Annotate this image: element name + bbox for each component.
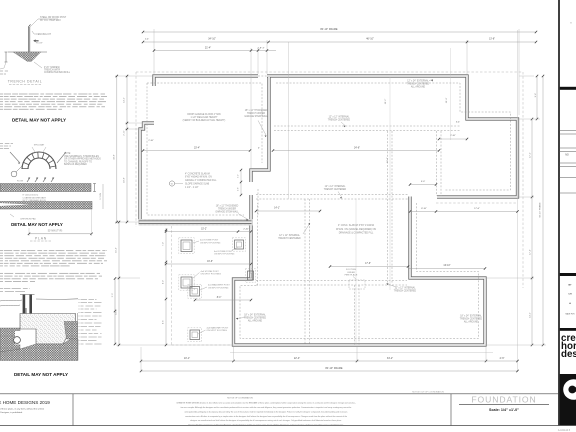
svg-text:W.W.M. ON (GRAVEL REQUIRED) O: W.W.M. ON (GRAVEL REQUIRED) ON [336,228,376,231]
porch dashed edge (right porch) [436,202,518,204]
porch dim 8-4 [195,299,251,301]
check dam: flow arrows under arch [27,178,30,183]
svg-text:NOTICE OUT OF COORDINATION: NOTICE OUT OF COORDINATION [412,390,444,393]
svg-text:ALL AROUND: ALL AROUND [411,86,426,89]
svg-text:FIRE PLACE: FIRE PLACE [345,274,358,277]
svg-text:18" x 12" THICKENED: 18" x 12" THICKENED [245,110,268,112]
dim 8-10 upper [410,184,436,186]
trench dashed inside garage [147,83,262,215]
wall: garage stem bottom (thickened) [139,219,253,226]
strip right rotated dim [102,184,104,209]
svg-text:15'-2": 15'-2" [201,228,207,230]
strip1 right dim [94,184,96,192]
svg-text:16'-2": 16'-2" [385,98,387,104]
dim 17-6 mid [330,266,408,268]
svg-text:46'-10": 46'-10" [366,38,374,41]
svg-text:18" x 12" THICKENED: 18" x 12" THICKENED [216,205,239,207]
trench detail: left depth dim [5,52,7,62]
grid line x450 [450,48,452,140]
porch dim 16-6 [166,263,251,265]
fireplace footing dashed rect [349,280,365,289]
internal trench dashed pair x357 [354,285,356,345]
grid line x288 [288,42,290,199]
logo disc [563,379,576,400]
interior dim 23-4 [143,150,250,152]
svg-text:2'-8" 4": 2'-8" 4" [258,48,265,50]
svg-text:1 1/2" REGULAR HEIGHT: 1 1/2" REGULAR HEIGHT [191,116,219,119]
wall: bottom-right section [234,195,486,345]
left dim line (garage inner) [126,76,128,222]
section: right soil wedge [64,322,78,340]
right strip: thick bar 3 [560,328,576,331]
internal trench dashed pair x439 [436,131,438,196]
svg-text:CH: CH [568,294,572,296]
svg-text:7'-0": 7'-0" [163,242,165,246]
svg-text:GARAGE STEM WALL: GARAGE STEM WALL [244,115,268,118]
svg-text:17'-4": 17'-4" [530,249,532,255]
svg-text:TRENCH CENTERED: TRENCH CENTERED [324,189,347,191]
svg-text:2'-10": 2'-10" [148,140,154,142]
svg-text:TRENCH CENTERED: TRENCH CENTERED [278,238,301,240]
left dim line (porch/lower) [118,222,120,345]
svg-text:80'-10" FRAME: 80'-10" FRAME [325,367,343,370]
svg-text:TO CHANNEL RUNOFF TO: TO CHANNEL RUNOFF TO [64,160,92,163]
svg-text:GRAVEL 4" COMPACTED FILL: GRAVEL 4" COMPACTED FILL [185,179,217,182]
svg-text:3'-0": 3'-0" [238,174,240,178]
svg-text:DRAINAGE & COMPACTED FILL: DRAINAGE & COMPACTED FILL [339,231,374,234]
svg-text:4x4 STONE POST: 4x4 STONE POST [201,271,220,273]
trench detail: left cut label [0,70,3,72]
svg-text:4x4 MASONRY POST: 4x4 MASONRY POST [208,284,230,287]
svg-text:des: des [561,349,576,360]
section: bottom soil band [0,339,78,361]
section: grade labels [0,288,3,290]
svg-text:17'-6": 17'-6" [365,263,371,265]
svg-text:16'-6": 16'-6" [207,261,213,263]
svg-text:4x4 STONE POST: 4x4 STONE POST [200,240,219,242]
post footing P4 [190,287,200,297]
svg-text:6"X6" #10/#10 W.W.M. ON: 6"X6" #10/#10 W.W.M. ON [185,177,212,179]
svg-text:NOTE:: NOTE: [64,153,71,155]
svg-text:DROP GARAGE FLOOR 4" MIN: DROP GARAGE FLOOR 4" MIN [187,113,221,116]
svg-text:18" x 24" EXTERNAL: 18" x 24" EXTERNAL [460,315,482,318]
right strip: thick bar 1 [560,87,576,90]
svg-text:MADE FOR: MADE FOR [566,313,576,316]
svg-text:ALL AROUND: ALL AROUND [464,321,479,324]
right title strip: vertical black edge [558,0,560,426]
porch dashed edges (left porch) [171,226,173,345]
svg-text:CREATIVE HOME DESIGN devotes: CREATIVE HOME DESIGN devotes its best ef… [176,401,356,404]
svg-text:24'-6": 24'-6" [354,147,360,150]
section: concrete stem+footing [20,314,76,345]
check dam: stone arch [22,152,56,169]
svg-text:16'-1": 16'-1" [387,157,389,163]
right strip: revision table rows [560,130,576,132]
svg-text:COMPACTED BACKFILL: COMPACTED BACKFILL [44,71,71,74]
title bar: divider 2 [450,394,452,426]
svg-text:© CREATIVE HOME DESIGNS 2019: © CREATIVE HOME DESIGNS 2019 [0,399,50,405]
check dam: left cut-off labels [0,143,3,145]
svg-text:TRENCH CENTERED: TRENCH CENTERED [244,317,267,319]
svg-text:12" x 24" EXTERNAL: 12" x 24" EXTERNAL [407,80,429,83]
post footing P2 [235,240,244,249]
svg-text:SLOPE GARAGE SLAB: SLOPE GARAGE SLAB [185,183,210,186]
section: right label stack [81,299,88,301]
svg-text:4" CONC. SLAB W/ 6"X6" # 10/#: 4" CONC. SLAB W/ 6"X6" # 10/#10 [338,224,375,227]
svg-text:14'-2": 14'-2" [124,97,126,103]
top dim line 3 [154,50,276,52]
svg-text:4"x6" (VARIES): 4"x6" (VARIES) [44,66,60,69]
svg-text:FOOTING: FOOTING [346,269,356,271]
svg-text:DETAIL MAY NOT APPLY: DETAIL MAY NOT APPLY [12,117,66,122]
porch dims 15-2 / 2-10 [166,231,251,233]
svg-text:12" x 12" INTERNAL: 12" x 12" INTERNAL [395,287,416,290]
svg-text:FENCING KIT: FENCING KIT [37,34,52,36]
svg-text:PLAN: PLAN [35,236,47,240]
svg-text:BY: BY [568,285,572,287]
bottom dim line 2 [141,370,518,372]
svg-text:58'-10" FRAME: 58'-10" FRAME [539,202,542,218]
svg-text:3'-0": 3'-0" [112,293,114,298]
svg-text:8'-10": 8'-10" [421,208,427,210]
svg-text:2'-4": 2'-4" [145,39,149,41]
svg-text:FOUNDATION: FOUNDATION [471,394,536,404]
riprap strip 1 [0,184,91,192]
internal trench dashed pair y127 [274,125,460,127]
grid line x517.5 [517,30,519,372]
svg-text:16'-4": 16'-4" [116,247,118,253]
title bar: top border [0,393,558,395]
trench dashed bottom-right room [240,203,479,339]
svg-text:TRENCH CENTERED: TRENCH CENTERED [460,319,483,321]
svg-text:80'-10" FRAME: 80'-10" FRAME [320,28,338,31]
svg-text:construction costs. A fail: construction costs. A failure to coopera… [185,415,347,418]
riprap strip 2 [0,202,92,210]
section: right edge line [77,313,79,361]
svg-text:5'-0": 5'-0" [421,181,426,183]
svg-text:Reproduction of these plans, i: Reproduction of these plans, in any form… [0,407,45,410]
svg-text:8'-0": 8'-0" [163,280,165,284]
svg-text:18" x 24" EXTERNAL: 18" x 24" EXTERNAL [244,313,266,316]
trench detail: leader to post label [30,19,58,27]
svg-text:14'-2": 14'-2" [530,312,532,318]
svg-text:ON SPOT FOOTING: ON SPOT FOOTING [200,242,221,244]
check dam: stone callout circle [11,171,17,177]
post footing P1 [181,240,192,252]
section: left gravel + drain [0,328,20,352]
wall: top + top-right steps [154,76,258,86]
right strip: thick bar 2 [560,273,576,276]
section: grade line right [36,298,78,301]
svg-text:23'-4": 23'-4" [194,147,200,150]
grid line x390 [389,77,391,290]
svg-text:9'-4": 9'-4" [535,93,537,98]
porch inner dim [165,228,167,345]
svg-text:12" x 12" INTERNAL: 12" x 12" INTERNAL [325,185,346,188]
svg-text:NOTICE OF COORDINATION: NOTICE OF COORDINATION [227,397,253,400]
trench dashed top-right room [276,83,511,190]
note paragraph 2 [0,250,3,252]
svg-text:FLOW: FLOW [17,181,23,183]
svg-text:TRENCH CENTERED: TRENCH CENTERED [394,291,417,293]
svg-text:tion are complex. Although: tion are complex. Although the designer … [181,406,352,409]
svg-text:NO: NO [565,154,569,157]
dim 16-10 [408,268,485,270]
svg-text:34'-2": 34'-2" [387,357,393,360]
interior dim 14-1 [256,210,320,212]
svg-text:8" (200-150mm): 8" (200-150mm) [23,195,39,197]
svg-text:3'-4": 3'-4" [456,122,460,124]
svg-text:UNDER: UNDER [347,272,355,274]
svg-text:16'-4": 16'-4" [446,97,448,103]
svg-text:22'-4": 22'-4" [294,357,300,360]
post footing P6 (corner) [248,271,254,280]
title bar: divider 1 [72,394,74,426]
roof overhang dashed outline [136,71,523,73]
svg-text:4" CONCRETE SLAB W/: 4" CONCRETE SLAB W/ [185,172,210,175]
trench detail: post [27,27,29,58]
svg-text:consent of the Designer, is pr: consent of the Designer, is prohibited. [0,411,23,414]
svg-text:50' MIN (TYP): 50' MIN (TYP) [48,231,63,233]
svg-text:BASIN AS REQUIRED: BASIN AS REQUIRED [64,163,87,166]
svg-text:Designer, Architect Contract: Designer, Architect Contractor, or Struc… [188,424,344,427]
svg-text:designer are unauthorized a: designer are unauthorized and shall reli… [190,419,342,422]
svg-text:ALL AROUND: ALL AROUND [248,319,263,322]
svg-text:18'-8": 18'-8" [124,177,126,183]
garage door opening dims [240,170,242,195]
check dam: side arrows [10,152,20,163]
svg-text:USE SANDBAGS, STRAW BALES: USE SANDBAGS, STRAW BALES [64,155,99,158]
svg-text:14'-1": 14'-1" [274,208,280,210]
svg-text:ON SPOT FOOTING: ON SPOT FOOTING [207,330,228,332]
svg-text:TRENCH DETAIL: TRENCH DETAIL [8,80,43,84]
svg-text:34'-10": 34'-10" [208,38,216,41]
svg-text:FLOW: FLOW [36,43,43,45]
post footing P3 [181,277,192,288]
internal trench dashed pair x307 [304,199,306,345]
svg-text:14'-0": 14'-0" [116,309,118,315]
trench detail: hatched trench wedge [13,52,41,62]
svg-text:12" x 12" INTERNAL: 12" x 12" INTERNAL [279,234,300,237]
svg-text:4": 4" [258,148,260,150]
svg-text:34'-8": 34'-8" [113,154,115,160]
section: anchor bolt [25,308,27,314]
right dim lines [531,119,533,345]
svg-text:8'-4": 8'-4" [217,297,222,299]
svg-text:10'-1": 10'-1" [184,357,190,360]
svg-text:TRENCH UNDER: TRENCH UNDER [218,208,236,210]
svg-text:4x4 MASONRY POST: 4x4 MASONRY POST [207,326,229,329]
svg-text:(VERIFY W/ BUILDER ACTUAL HEIG: (VERIFY W/ BUILDER ACTUAL HEIGHT) [183,119,226,122]
svg-text:CHEVRON PAD: CHEVRON PAD [20,217,36,220]
svg-text:TRENCH CENTERED: TRENCH CENTERED [328,120,351,122]
svg-text:36" O.C. HIGH MAX: 36" O.C. HIGH MAX [40,19,61,22]
svg-text:TRENCH CENTERED: TRENCH CENTERED [407,84,430,86]
svg-text:8'-6": 8'-6" [163,320,165,324]
interior dim 24-6 [273,150,439,152]
svg-text:12" x 12" INTERNAL: 12" x 12" INTERNAL [329,116,350,119]
wall: garage left + jog + bottom [140,123,154,221]
svg-text:DETAIL MAY NOT APPLY: DETAIL MAY NOT APPLY [14,372,68,377]
section: studs [23,295,26,316]
svg-text:21'-4": 21'-4" [205,47,211,50]
section: right dim line [114,278,116,345]
svg-text:1 1/2" - 2 1/2": 1 1/2" - 2 1/2" [185,187,199,189]
sheet bottom border [0,425,576,427]
svg-text:16'-10": 16'-10" [443,265,450,267]
svg-text:2'-10": 2'-10" [243,228,249,230]
svg-text:OR OTHER APPROVED METHODS: OR OTHER APPROVED METHODS [64,158,101,161]
trench detail: backfill label leader [34,62,42,68]
internal trench dashed pair y283 [256,280,407,282]
svg-text:ON SPOT FOOTING: ON SPOT FOOTING [201,274,222,276]
svg-text:17'-2": 17'-2" [530,152,532,158]
grid line x356 [355,199,357,345]
right strip: logo black box [560,374,576,426]
left dim line (outer total) [116,76,118,222]
note paragraph 1 [0,93,3,95]
svg-text:2'-10": 2'-10" [450,135,456,137]
internal trench dashed pair y199 [256,194,408,196]
svg-text:13'-8": 13'-8" [489,38,495,41]
svg-text:SPILLWAY: SPILLWAY [34,143,45,146]
wall: garage party wall [251,77,269,182]
svg-text:ON SPOT FOOTING: ON SPOT FOOTING [208,287,229,289]
G1 slab note [169,181,174,186]
internal trench dashed pair x390 [387,131,389,283]
top dim extension lines [153,29,155,74]
chevron pad label [10,214,14,217]
svg-text:COARSE AGGREGATE: COARSE AGGREGATE [23,196,47,199]
svg-text:G1: G1 [171,184,173,186]
svg-text:12' MIN: 12' MIN [100,193,102,200]
svg-text:4'-6": 4'-6" [500,357,505,360]
trench detail: fencing kit label [32,31,36,34]
svg-text:DETAIL MAY NOT APPLY: DETAIL MAY NOT APPLY [11,222,63,227]
dim 8-10/17-6 (right porch) [410,211,518,213]
bottom dim line 1 [141,360,518,362]
top dim line 1 (80ft) [143,31,536,33]
svg-text:ON SPOT FOOTING: ON SPOT FOOTING [214,254,235,256]
svg-text:2'-8": 2'-8" [238,187,240,191]
trench detail: flow arrow [33,39,38,42]
svg-text:anticipated. Any ambiguity: anticipated. Any ambiguity or discrepanc… [185,410,348,413]
top dim line 2 [143,41,536,43]
post footing P5 [190,330,200,340]
svg-text:2'-10": 2'-10" [124,130,126,135]
svg-text:GARAGE STEM WALL: GARAGE STEM WALL [215,210,239,213]
svg-text:17'-6": 17'-6" [474,208,480,210]
svg-text:4x4 STONE POST: 4x4 STONE POST [214,251,233,253]
sub-wall thin line [230,352,493,354]
trench detail: ground line [8,51,47,53]
svg-text:Scale: 1/4" =1'-0": Scale: 1/4" =1'-0" [489,408,519,412]
svg-text:TRENCH UNDER: TRENCH UNDER [247,113,265,115]
